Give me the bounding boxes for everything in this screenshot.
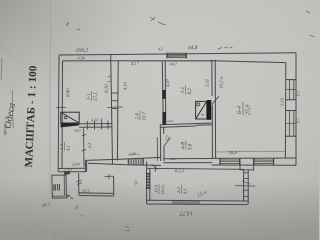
svg-text:швл: швл	[170, 157, 177, 161]
walkway step rungs	[243, 173, 249, 197]
svg-text:04,8: 04,8	[188, 44, 198, 52]
stove 1 (left room)	[61, 112, 80, 127]
svg-text:8,2: 8,2	[188, 88, 193, 95]
interior wall A (between room1 and room2)	[111, 55, 113, 165]
walkway tick	[235, 185, 255, 188]
svg-text:17,1: 17,1	[94, 92, 99, 101]
flue partition (ladder) right of stove	[79, 123, 111, 125]
door jamb stub	[154, 166, 156, 172]
big room bottom window left	[220, 158, 240, 165]
small annex lower-left	[78, 173, 80, 195]
door threshold big room bottom	[240, 158, 254, 170]
dim tick across left wall	[56, 106, 66, 108]
svg-text:25,9: 25,9	[246, 105, 252, 116]
outer wall left	[57, 55, 60, 172]
walkway vertical (double)	[243, 170, 245, 201]
svg-text:швл: швл	[167, 119, 174, 123]
svg-text:8,10: 8,10	[105, 84, 110, 93]
faint stray pencil marks	[66, 11, 314, 231]
middle room dim marks above window	[129, 153, 141, 156]
hall label	[181, 85, 193, 95]
porch door dark block	[64, 171, 70, 174]
outer wall top (outer line)	[59, 53, 296, 55]
porch	[52, 175, 67, 198]
outer wall right	[295, 53, 297, 166]
annex top edge	[147, 168, 244, 169]
svg-text:14,77: 14,77	[178, 210, 193, 218]
sheet edge line	[50, 0, 51, 240]
svg-text:б-4: б-4	[236, 106, 243, 114]
small annex ticks	[105, 175, 114, 177]
bathroom bottom wall	[163, 158, 212, 160]
stove 2 (hall)	[196, 100, 212, 120]
door gap diagonal near annex	[152, 165, 158, 170]
flue ticks in wall A	[111, 92, 118, 94]
room 2 label	[136, 111, 148, 121]
annex window on left wall (hatched)	[146, 174, 151, 189]
bottom wall left section	[59, 167, 86, 169]
middle room bottom window (hatched)	[128, 158, 143, 165]
hall closet wall	[156, 137, 158, 161]
svg-text:1-2: 1-2	[59, 143, 64, 150]
walkway / annex bottom (double)	[147, 199, 248, 202]
bathroom door leaf	[164, 138, 171, 147]
bathroom label	[182, 140, 194, 150]
window 2 on right wall	[286, 111, 296, 137]
bathroom left wall	[159, 125, 161, 161]
svg-text:8,40: 8,40	[67, 88, 72, 97]
svg-text:05б,2: 05б,2	[76, 46, 89, 54]
big room dimension line above bottom wall	[216, 150, 286, 153]
annex left wall	[146, 162, 148, 205]
window 1 on right wall	[286, 80, 296, 100]
step between bottom levels	[84, 160, 86, 171]
dim tick across wall A	[107, 106, 123, 108]
extra small annotations	[158, 46, 177, 161]
wall B dark flue segments	[162, 90, 166, 125]
porch corner scribble	[67, 195, 74, 200]
svg-text:шил: шил	[74, 127, 81, 132]
lower-left rooms	[59, 142, 72, 151]
door swing at wall E	[212, 96, 219, 104]
interior wall E (hall / big room)	[211, 60, 214, 159]
left margin caption: misto Odesa	[1, 58, 18, 135]
big room bottom window right	[254, 158, 274, 165]
annex bottom hatched block	[173, 201, 199, 205]
annex wall cross marks	[77, 180, 251, 185]
big room label	[236, 102, 251, 115]
outer wall top (inner line)	[63, 61, 286, 63]
svg-text:50: 50	[134, 180, 139, 185]
paper corner edge top-left	[1, 0, 14, 58]
room 1 label	[87, 91, 99, 101]
porch step posts	[54, 184, 60, 191]
window on top wall	[167, 53, 186, 59]
bottom wall middle section	[85, 157, 161, 160]
lower-left partition	[83, 128, 85, 166]
svg-text:10,7: 10,7	[143, 111, 148, 120]
bathroom top wall	[160, 123, 212, 125]
svg-text:28,8: 28,8	[228, 151, 237, 156]
interior wall B (room2 / hall)	[162, 61, 163, 125]
big room bottom wall	[212, 157, 297, 159]
svg-text:9,8: 9,8	[189, 143, 194, 150]
